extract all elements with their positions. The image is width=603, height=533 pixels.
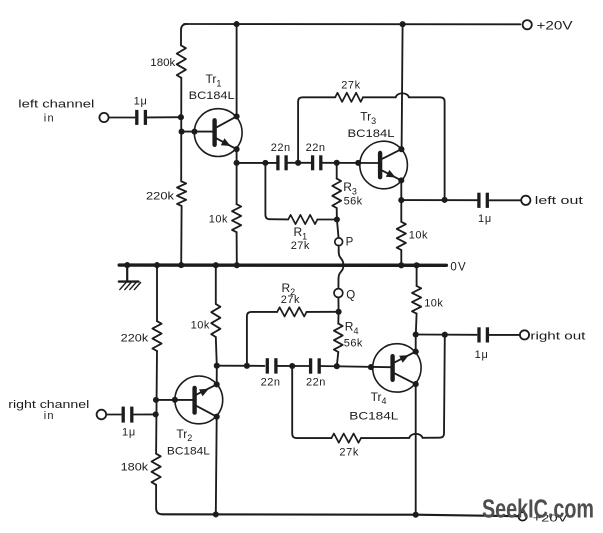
- terminal +20V bottom: [518, 512, 526, 520]
- label 22n upper-right: [306, 142, 326, 154]
- node caps midpoint lower: [289, 363, 295, 369]
- label left out: [535, 195, 583, 207]
- node bottom rail Tr2: [213, 511, 219, 517]
- node Tr2 collector: [214, 414, 220, 420]
- label BC184L Tr1: [189, 90, 235, 102]
- label R4: [345, 320, 359, 336]
- resistor 220k (left channel bias): [177, 181, 186, 206]
- label BC184L Tr4: [349, 411, 398, 423]
- label in (right): [44, 410, 55, 422]
- wire input to cap R: [107, 414, 121, 416]
- wire emitter link: [415, 335, 417, 352]
- transistor Tr2 base bar: [192, 388, 196, 413]
- wire bias column lower: [180, 206, 182, 264]
- svg-text:left out: left out: [535, 195, 583, 207]
- svg-text:BC184L: BC184L: [167, 446, 210, 458]
- wire Q to R2 junction: [337, 298, 339, 312]
- node rail 10k-upper-right: [398, 262, 404, 268]
- label 1u left input: [134, 96, 148, 108]
- node input/bias junction L: [178, 114, 184, 120]
- wire emitter to first 22n: [237, 162, 277, 164]
- transistor Tr3 collector lead: [383, 149, 402, 159]
- label 10k upper-right: [409, 230, 428, 242]
- svg-text:22n: 22n: [306, 142, 326, 154]
- svg-text:10k: 10k: [424, 297, 443, 309]
- label R3: [343, 180, 357, 196]
- svg-text:56k: 56k: [344, 196, 363, 208]
- transistor Tr4 emitter lead: [395, 352, 416, 363]
- wire between 22n caps upper: [286, 162, 312, 164]
- label 0V: [450, 261, 466, 273]
- transistor Tr1 circle: [194, 109, 242, 157]
- label 1u right out: [475, 349, 489, 361]
- svg-text:180k: 180k: [150, 57, 176, 69]
- transistor Tr1 emitter lead: [217, 138, 237, 149]
- resistor R4 56k: [334, 312, 343, 366]
- node Tr4 emitter: [413, 349, 419, 355]
- label BC184L Tr2: [167, 446, 210, 458]
- node R2-R4 junction: [336, 309, 342, 315]
- wire caps to Tr4 base: [319, 366, 390, 367]
- wire cap to left out term: [489, 199, 521, 201]
- label 22n lower-right: [306, 376, 326, 388]
- terminal right out: [520, 330, 529, 339]
- node caps midpoint upper: [295, 160, 301, 166]
- wire 10k to 0V rail UL: [236, 232, 238, 263]
- node 22n branch junction: [214, 363, 220, 369]
- wire cap to right out term: [490, 334, 520, 336]
- svg-text:220k: 220k: [146, 191, 175, 203]
- node feedback join left: [442, 197, 448, 203]
- node Tr2 emitter: [214, 381, 220, 387]
- node Tr3 collector: [398, 146, 404, 152]
- label 27k lower: [339, 446, 359, 458]
- svg-text:+20V: +20V: [537, 20, 573, 32]
- wire +20V bottom supply rail: [162, 514, 518, 516]
- node Tr1 base edge dot: [191, 129, 197, 135]
- capacitor 1u right input: [123, 407, 132, 423]
- wire caps midpoint down to 27k: [292, 366, 331, 438]
- node R2 tap: [244, 363, 250, 369]
- svg-text:22n: 22n: [306, 376, 326, 388]
- wire hop over Tr4 collector line: [409, 434, 422, 438]
- wire bias column mid: [180, 78, 182, 182]
- transistor Tr2 collector lead: [197, 406, 217, 417]
- node rail 10k-lower-left: [213, 262, 219, 268]
- wire cap to bias node R: [134, 413, 157, 415]
- svg-text:27k: 27k: [341, 80, 361, 92]
- label 10k lower-right: [424, 297, 443, 309]
- svg-text:56k: 56k: [344, 337, 363, 349]
- label 56k R3: [344, 196, 363, 208]
- node rail 220k-lower: [154, 262, 160, 268]
- label 220k upper: [146, 191, 175, 203]
- wire Tr1 emitter to filter node: [236, 149, 238, 204]
- resistor R 180k (left channel bias): [177, 46, 186, 78]
- transistor Tr3 circle: [360, 141, 408, 189]
- label left channel: [18, 98, 94, 110]
- wire R2 left leg: [247, 312, 277, 366]
- svg-text:1μ: 1μ: [475, 349, 489, 361]
- label 10k upper-left: [209, 213, 228, 225]
- node rail 10k-upper-left: [234, 262, 240, 268]
- label 180k lower: [121, 462, 149, 474]
- resistor 27k lower feedback: [331, 434, 361, 443]
- node base tap L: [179, 129, 185, 135]
- resistor 10k lower-left: [211, 267, 220, 366]
- label BC184L Tr3: [348, 128, 395, 140]
- transistor Tr4 base bar: [390, 356, 394, 380]
- label Tr1: [206, 72, 222, 88]
- transistor Tr3 emitter lead: [383, 170, 402, 181]
- label 27k R2: [281, 294, 300, 306]
- label 27k upper: [341, 80, 361, 92]
- wire Tr1 base: [182, 131, 213, 133]
- wire Tr2 base: [156, 399, 192, 401]
- label in (left): [44, 113, 55, 125]
- node rail ground stub: [124, 262, 130, 268]
- watermark SeekIC.com: [482, 495, 594, 523]
- svg-text:1μ: 1μ: [134, 96, 148, 108]
- wire Tr4 collector down: [415, 384, 417, 515]
- svg-text:220k: 220k: [121, 332, 149, 344]
- node rail 220k-upper: [178, 262, 184, 268]
- svg-text:BC184L: BC184L: [349, 411, 398, 423]
- svg-text:BC184L: BC184L: [189, 90, 235, 102]
- label 10k lower-left: [191, 320, 210, 332]
- svg-text:0V: 0V: [450, 261, 466, 273]
- label 56k R4: [344, 337, 363, 349]
- resistor 180k lower: [152, 454, 161, 485]
- wire R1 left leg: [265, 163, 288, 220]
- terminal +20V top: [523, 20, 532, 29]
- node Q terminal: [334, 289, 343, 298]
- transistor Tr3 base bar: [378, 153, 382, 177]
- wire Tr2 collector down: [215, 417, 218, 515]
- label right out: [530, 331, 585, 343]
- svg-text:22n: 22n: [271, 142, 291, 154]
- transistor Tr4 collector lead: [395, 374, 416, 385]
- transistor Tr4 circle: [373, 344, 421, 392]
- wire 27k to lower hop: [361, 437, 409, 439]
- wire +20V top supply rail: [184, 23, 520, 25]
- node Tr1 collector: [234, 113, 240, 119]
- svg-text:1μ: 1μ: [122, 427, 136, 439]
- wire top-rail corner to 180k: [181, 24, 187, 46]
- resistor 10k upper-right: [397, 200, 406, 263]
- svg-text:10k: 10k: [209, 213, 228, 225]
- svg-text:in: in: [44, 410, 55, 422]
- wire between 22n caps lower: [276, 365, 310, 367]
- transistor Tr1 collector lead: [217, 116, 237, 127]
- label 27k R1: [291, 240, 310, 252]
- label 1u left out: [478, 213, 492, 225]
- node R1-R3-P junction: [334, 216, 340, 222]
- svg-text:10k: 10k: [191, 320, 210, 332]
- wire 180k to bottom rail: [156, 485, 162, 515]
- svg-text:right out: right out: [530, 331, 585, 343]
- svg-text:in: in: [44, 113, 55, 125]
- wire rail to Tr3 collector: [402, 24, 403, 149]
- label 220k lower: [121, 332, 149, 344]
- label Q: [346, 289, 355, 301]
- wire junction to P: [337, 220, 339, 239]
- node bottom rail Tr4: [413, 512, 419, 518]
- node R1 tap: [262, 160, 268, 166]
- node rail 10k-lower-right: [414, 262, 420, 268]
- node Tr4 base-wire dot: [368, 364, 374, 370]
- ground symbol: [119, 265, 141, 290]
- transistor Tr2 emitter lead: [197, 384, 217, 396]
- resistor 27k upper feedback: [335, 93, 363, 102]
- wire caps to Tr3 base: [321, 162, 378, 164]
- node top rail junction Tr1: [234, 21, 240, 27]
- svg-text:SeekIC.com: SeekIC.com: [482, 495, 594, 523]
- node Tr4 collector: [413, 381, 419, 387]
- wire caps midpoint up to 27k: [298, 97, 335, 163]
- transistor Tr2 circle: [175, 376, 223, 424]
- label Tr2: [176, 427, 192, 443]
- label 22n lower-left: [261, 376, 281, 388]
- svg-text:180k: 180k: [121, 462, 149, 474]
- label right channel: [8, 399, 89, 411]
- node Tr3 emitter: [398, 177, 404, 183]
- node input junction R: [153, 411, 159, 417]
- svg-text:P: P: [346, 236, 354, 248]
- capacitor 22n lower-right: [311, 358, 320, 373]
- node R4 bottom junction: [334, 363, 340, 369]
- wire out node to cap R: [416, 334, 477, 336]
- wire 27k right to up-leg: [423, 335, 445, 438]
- capacitor 22n upper-left: [278, 155, 286, 170]
- node Tr1 emitter: [234, 146, 240, 152]
- wire Tr3 emitter to out node: [400, 180, 402, 200]
- wire rail to Tr1 collector: [236, 24, 238, 116]
- node left out junction: [398, 197, 404, 203]
- wire out node to cap: [401, 199, 477, 201]
- capacitor 22n lower-left: [267, 358, 276, 373]
- transistor Tr1 base bar: [212, 120, 216, 145]
- svg-text:left channel: left channel: [18, 98, 94, 110]
- label 180k upper: [150, 57, 176, 69]
- label R2: [282, 281, 296, 297]
- label +20V bottom: [533, 512, 568, 524]
- label +20V top: [537, 20, 573, 32]
- svg-text:27k: 27k: [281, 294, 300, 306]
- node P terminal: [335, 238, 343, 246]
- resistor R2 27k: [277, 307, 306, 316]
- wire 27k to hop: [363, 96, 396, 98]
- node top rail junction Tr3: [400, 21, 406, 27]
- resistor 10k lower-right: [412, 267, 421, 335]
- svg-text:27k: 27k: [291, 240, 310, 252]
- wire hop over 0V rail: [339, 252, 344, 279]
- svg-text:Q: Q: [346, 289, 355, 301]
- label Tr4: [371, 390, 387, 406]
- svg-text:27k: 27k: [339, 446, 359, 458]
- wire junction to Tr2 emitter: [216, 366, 218, 385]
- node Tr1 emitter junction: [234, 160, 240, 166]
- label 22n upper-left: [271, 142, 291, 154]
- label P: [346, 236, 354, 248]
- node R3 top junction: [334, 160, 340, 166]
- terminal left out: [521, 196, 530, 205]
- wire R2 to junction: [307, 311, 339, 313]
- wire hop to Q: [337, 279, 339, 289]
- terminal left channel in: [99, 113, 108, 122]
- label R1: [294, 225, 308, 241]
- wire P to rail hop: [338, 245, 340, 251]
- label Tr3: [360, 110, 376, 126]
- resistor R1 27k: [288, 215, 317, 224]
- node Tr2 base edge dot: [172, 397, 178, 403]
- node feedback join right: [442, 332, 448, 338]
- wire 10k junction to left 22n: [217, 365, 265, 367]
- svg-text:22n: 22n: [261, 376, 281, 388]
- svg-text:1μ: 1μ: [478, 213, 492, 225]
- wire rail to 220k lower: [156, 267, 158, 321]
- node base tap R: [153, 397, 159, 403]
- svg-text:right channel: right channel: [8, 399, 89, 411]
- wire 0V rail: [119, 263, 446, 267]
- resistor R3 56k: [332, 163, 341, 220]
- terminal right channel in: [97, 410, 107, 420]
- svg-text:BC184L: BC184L: [348, 128, 395, 140]
- label 1u right input: [122, 427, 136, 439]
- resistor 10k upper-left: [232, 204, 241, 232]
- wire hop over Tr3 collector line: [396, 93, 409, 97]
- node right out junction: [413, 331, 419, 337]
- capacitor 1u left input: [137, 110, 146, 125]
- wire cap to bias node L: [148, 116, 181, 118]
- capacitor 1u left out: [479, 193, 487, 208]
- wire bias column mid R: [155, 351, 158, 454]
- capacitor 22n upper-right: [313, 155, 321, 170]
- wire 27k right to down-leg: [409, 97, 445, 199]
- wire input to cap L: [109, 117, 135, 119]
- resistor 220k lower: [152, 321, 161, 351]
- svg-text:10k: 10k: [409, 230, 428, 242]
- capacitor 1u right out: [479, 327, 487, 342]
- wire R1 to junction: [317, 219, 336, 221]
- node Tr3 base-wire dot: [355, 160, 361, 166]
